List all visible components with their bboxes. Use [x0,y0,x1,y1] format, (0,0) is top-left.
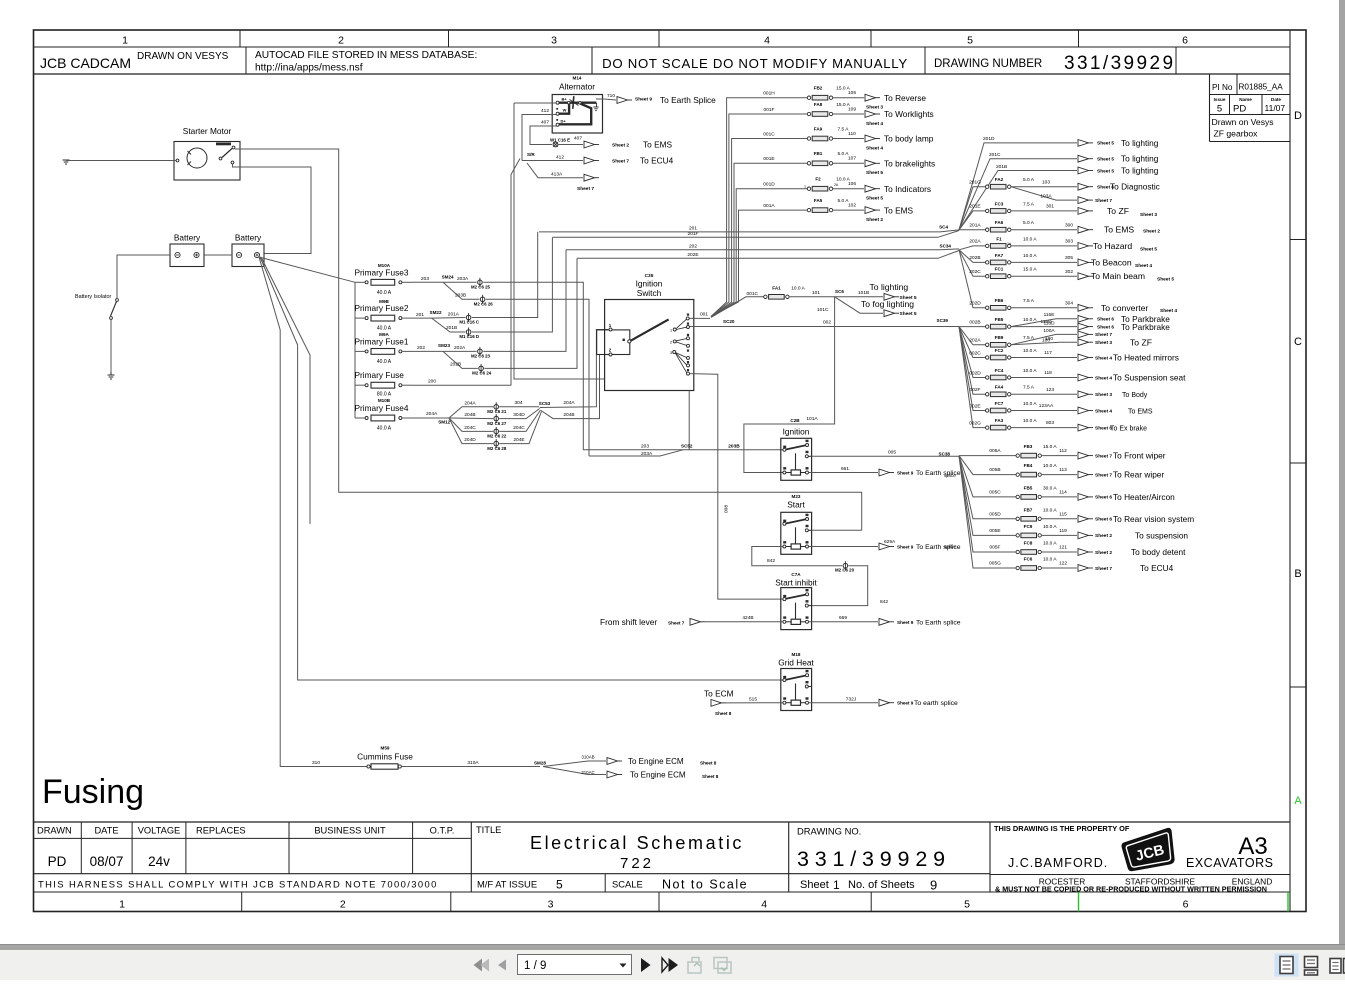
svg-text:M14: M14 [573,76,582,81]
wire 304 to arrow [1011,307,1077,309]
fuse FB3 15.0 A [1016,444,1067,458]
svg-text:FB4: FB4 [1024,463,1033,468]
svg-text:Switch: Switch [637,288,662,298]
svg-text:201: 201 [689,225,697,231]
svg-text:SC4: SC4 [939,225,948,230]
wire starter ground lead [66,160,176,162]
fuse F1 10.0 A [986,236,1074,248]
svg-text:Sheet 5: Sheet 5 [866,196,883,202]
wire 201A to bus 201 [472,232,538,318]
svg-text:101C: 101C [817,307,829,313]
svg-text:M2 C6 20: M2 C6 20 [835,568,855,573]
svg-text:A3: A3 [1238,833,1267,860]
svg-text:Sheet 5: Sheet 5 [1157,277,1174,283]
toolbar page number box [518,955,632,975]
svg-text:To Parkbrake: To Parkbrake [1121,322,1170,332]
svg-text:To ECM: To ECM [704,688,734,698]
fuse FA5 5.0 A [807,198,856,213]
svg-text:201E: 201E [969,204,980,210]
svg-text:R01885_AA: R01885_AA [1239,83,1284,92]
sheet arrow: To Hazard [1078,241,1157,252]
wire 204D branch [449,418,493,444]
svg-text:10.0 A: 10.0 A [1023,253,1037,259]
sheet arrow: 661 to earth splice [879,469,961,477]
wire 122 to arrow [1041,567,1077,569]
svg-text:001A: 001A [763,203,775,209]
svg-text:M/F AT ISSUE: M/F AT ISSUE [477,879,537,890]
wire 202B branch [443,351,478,368]
wire 002D row N [959,327,986,378]
wire 001C to FA1 [711,291,764,318]
svg-text:202C: 202C [969,269,981,275]
svg-text:669: 669 [839,615,847,621]
svg-text:Sheet 2: Sheet 2 [866,217,883,223]
wire 303 to arrow [1011,245,1077,247]
svg-text:SM12: SM12 [438,419,450,424]
toolbar previous page button [498,960,506,971]
svg-text:Primary Fuse1: Primary Fuse1 [355,336,409,346]
svg-text:Battery: Battery [235,233,262,243]
svg-text:Sheet 9: Sheet 9 [635,97,652,103]
title block values [48,854,171,869]
ground inside alternator [593,103,598,111]
svg-text:Sheet 7: Sheet 7 [1095,566,1112,572]
svg-text:To Heater/Aircon: To Heater/Aircon [1113,492,1175,502]
svg-text:M2 C6 22: M2 C6 22 [487,434,507,439]
svg-text:FC9: FC9 [1024,524,1033,529]
svg-text:100: 100 [1045,336,1053,342]
wire 201D to lighting arrow [959,136,1077,230]
svg-text:24v: 24v [148,854,170,869]
svg-text:203B: 203B [728,444,740,450]
sheet arrow: engine ECM 1 [607,757,717,766]
svg-text:301: 301 [1046,204,1054,210]
svg-text:008: 008 [724,505,730,513]
wire 201C to lighting arrow [959,152,1077,230]
wire primary fuse feed bus vertical [354,282,356,418]
svg-text:103A: 103A [1040,193,1052,199]
battery isolator switch [75,294,118,319]
svg-text:To body lamp: To body lamp [884,134,934,144]
svg-text:SM24: SM24 [442,274,454,279]
svg-text:302: 302 [1065,269,1073,275]
svg-text:5: 5 [1217,104,1222,115]
sheet arrow: To Rear vision system [1078,514,1194,524]
wire 412 to ECU4 arrow [522,155,583,161]
svg-text:304D: 304D [513,412,525,418]
svg-text:TITLE: TITLE [476,825,501,835]
wire 305 to arrow [1011,261,1077,263]
svg-text:Start: Start [787,500,805,510]
fuse FA1 10.0 A [764,285,806,299]
svg-text:Sheet 2: Sheet 2 [1095,533,1112,539]
sheet arrow: To Heated mirrors [1078,352,1179,362]
svg-text:3: 3 [670,351,672,355]
svg-text:To Heated mirrors: To Heated mirrors [1113,352,1179,362]
svg-text:407: 407 [574,136,582,142]
wire 301 to arrow [1011,210,1077,212]
fuse FB1 5.0 A [807,151,856,166]
toolbar first page button [474,959,490,972]
svg-text:From shift lever: From shift lever [600,617,657,627]
svg-text:407: 407 [541,120,549,126]
svg-text:To EMS: To EMS [643,140,673,150]
svg-text:005B: 005B [989,467,1000,473]
svg-text:002C: 002C [969,350,981,356]
svg-text:Sheet: Sheet [800,879,829,891]
svg-text:6: 6 [1182,35,1188,47]
wire 109 to arrow [833,113,864,115]
fuse FC3 7.5 A [986,201,1055,213]
svg-text:201: 201 [416,312,424,318]
sheet arrow: to lighting 201B [1078,166,1159,176]
svg-text:F1: F1 [996,236,1002,241]
wire 005E [959,456,1016,536]
svg-text:001: 001 [700,311,708,317]
svg-text:To lighting: To lighting [1121,166,1159,176]
toolbar last page button [662,958,678,972]
svg-text:117: 117 [1044,350,1052,356]
svg-text:B+: B+ [562,97,568,102]
fuse FC2 10.0 A [986,348,1053,360]
relay start M23 [781,494,812,554]
svg-text:105: 105 [848,90,856,96]
green revision tick 5|6 [1078,892,1080,912]
wire 669 to earth splice [809,615,879,622]
relay start inhibit C7A [775,572,817,630]
wire 201 from PrimaryFuse2 to splice SM22 [412,310,442,318]
wire 204A to ignition switch pin 1 [540,330,608,408]
sheet arrow: to ZF [1078,206,1157,218]
svg-text:7.5 A: 7.5 A [1023,298,1035,304]
sheet arrow: To Front wiper [1078,451,1166,461]
svg-text:M2 C6 23: M2 C6 23 [471,354,491,359]
wire 515 [726,696,783,703]
fuse FB7 10.0 A [1016,507,1067,521]
svg-text:Sheet 4: Sheet 4 [1095,408,1112,414]
svg-text:201B: 201B [996,164,1007,170]
wire 201A row F [959,223,986,230]
svg-text:SC53: SC53 [539,401,551,406]
svg-text:7.5 A: 7.5 A [1023,201,1035,207]
junction M2 C6 25 [471,278,491,290]
wire 203B down to 203A line [486,299,589,456]
svg-text:201F: 201F [688,231,699,237]
wire 661 to earth splice [809,466,879,473]
svg-text:10.0 A: 10.0 A [1043,463,1057,469]
svg-text:Sheet 4: Sheet 4 [1095,355,1112,361]
svg-text:30.0 A: 30.0 A [1043,486,1057,492]
svg-text:10.0 A: 10.0 A [1043,524,1057,530]
svg-text:Cummins Fuse: Cummins Fuse [357,752,413,762]
svg-text:113: 113 [1059,467,1067,473]
svg-text:Sheet 7: Sheet 7 [612,159,629,165]
svg-text:FB1: FB1 [814,151,823,156]
wire 114 to arrow [1041,496,1077,498]
svg-text:118: 118 [1044,370,1052,376]
sheet arrow: 103A sheet 7 [1078,197,1112,204]
wire 001C [711,131,807,316]
fuse FC7 10.0 A [986,401,1054,413]
svg-text:Sheet 8: Sheet 8 [715,711,732,716]
wire 304 crossover to SC53 [499,400,539,407]
wire 005D [959,456,1016,519]
svg-text:203: 203 [421,276,429,282]
wire 005C [959,456,1016,497]
sheet arrow: to ZF row L [1078,337,1152,347]
svg-text:FA6: FA6 [995,220,1004,225]
svg-text:Name: Name [1239,97,1252,102]
title text [530,833,744,872]
wire 413A branch [527,163,583,178]
sheet arrow: To brakelights [865,159,935,177]
fuse FB9 7.5 A [986,335,1051,347]
svg-text:Sheet 3: Sheet 3 [1095,392,1112,398]
wire battery1 to isolator [117,255,170,298]
svg-text:To lighting: To lighting [870,282,909,292]
svg-text:PD: PD [48,854,67,869]
sheet arrow: to earth splice (alternator) [617,95,716,105]
wire 103A branch [1011,187,1077,200]
header: DRAWING NUMBER [934,53,1175,74]
svg-text:1#: 1# [1007,242,1011,246]
svg-text:10.0 A: 10.0 A [1043,557,1057,563]
bus 201F [553,231,960,238]
svg-text:B: B [1294,568,1301,580]
relay grid heat M18 [778,652,814,711]
svg-text:C: C [1294,336,1302,348]
svg-text:Sheet 5: Sheet 5 [1097,141,1114,147]
svg-text:Grid Heat: Grid Heat [778,658,814,668]
wire 001E [711,156,807,316]
svg-text:005D: 005D [989,511,1001,517]
svg-text:To earth splice: To earth splice [914,700,958,707]
fuse FA8 15.0 A [807,102,856,116]
right border row letters D C B A [1290,110,1306,807]
wire 310AC branch [543,767,606,775]
svg-text:203B: 203B [455,293,466,299]
svg-text:110: 110 [848,131,856,137]
sheet arrow: To ECU4 [1078,563,1174,573]
svg-text:102: 102 [848,203,856,209]
junction W1 C16 E [550,138,570,147]
svg-text:002B: 002B [969,319,980,325]
svg-text:To brakelights: To brakelights [884,159,935,169]
svg-text:Sheet 9: Sheet 9 [897,471,914,476]
svg-text:Sheet 7: Sheet 7 [1095,453,1112,459]
svg-text:To ECU4: To ECU4 [1140,563,1174,573]
wire 204A branch [449,400,493,418]
svg-text:106: 106 [848,181,856,187]
wire 300 to arrow [1011,229,1077,231]
svg-text:10.0 A: 10.0 A [1023,236,1037,242]
svg-text:& MUST NOT BE COPIED OR RE-PRO: & MUST NOT BE COPIED OR RE-PRODUCED WITH… [995,885,1267,894]
wire 304D crossover [499,409,540,419]
wire alternator B+ to ignition switch [514,103,605,379]
svg-text:FB7: FB7 [1024,507,1033,512]
svg-text:002D: 002D [969,370,981,376]
wire starter motor aux to battery bus [233,164,312,254]
svg-text:1: 1 [122,35,128,47]
svg-text:100A: 100A [1043,328,1055,334]
wire battery feed to primary fuse bus [259,257,355,282]
svg-text:101A: 101A [806,416,818,422]
wire starter B+ to start relay feed [235,149,862,530]
battery 2 [232,233,264,267]
svg-text:PI No: PI No [1212,83,1233,92]
svg-text:101: 101 [812,290,820,296]
fuse FC9 10.0 A [1016,524,1067,538]
svg-text:DRAWING NO.: DRAWING NO. [797,826,861,837]
svg-text:Starter Motor: Starter Motor [183,126,232,136]
svg-text:204C: 204C [513,425,525,431]
sheet arrow: To Heater/Aircon [1078,492,1175,502]
svg-text:REPLACES: REPLACES [196,826,246,836]
svg-text:5.0 A: 5.0 A [1023,220,1035,226]
svg-text:To ZF: To ZF [1130,337,1152,347]
svg-text:204C: 204C [464,425,476,431]
svg-text:M2 C6 24: M2 C6 24 [472,371,492,376]
svg-text:Battery: Battery [174,233,201,243]
svg-text:To Engine ECM: To Engine ECM [630,771,686,780]
svg-text:FB5: FB5 [995,317,1004,322]
wire 203A merge [589,450,683,457]
svg-text:304: 304 [514,400,522,406]
wire 100 branch [1011,336,1077,345]
svg-text:FB9: FB9 [995,335,1004,340]
svg-text:Sheet 5: Sheet 5 [1097,168,1114,174]
svg-text:202A: 202A [969,338,981,344]
svg-text:109: 109 [848,106,856,112]
title block grid [34,822,1291,892]
svg-text:6: 6 [1183,899,1189,911]
svg-text:412: 412 [556,155,564,161]
wire 803 to arrow [1011,427,1077,429]
viewer scrollbar right [1339,0,1345,944]
wire 101A to ignition relay coil [744,297,835,473]
fuse FB5 30.0 A [1016,486,1067,500]
svg-text:J.C.BAMFORD.: J.C.BAMFORD. [1008,856,1108,870]
wire 001A [711,203,807,317]
wire 200 from PrimaryFuse [412,378,511,385]
svg-text:Ignition: Ignition [636,279,663,289]
svg-text:SCALE: SCALE [612,879,643,890]
svg-text:Sheet 6: Sheet 6 [1095,495,1112,501]
svg-text:Fusing: Fusing [42,773,144,811]
fuse FA3 10.0 A [986,418,1055,430]
svg-text:To lighting: To lighting [1121,154,1159,164]
svg-text:001C: 001C [747,291,759,297]
wire 105 to arrow [833,97,864,99]
svg-text:M2 C6 21: M2 C6 21 [487,409,507,414]
svg-text:107: 107 [848,156,856,162]
svg-text:005: 005 [888,449,896,455]
svg-text:ZF gearbox: ZF gearbox [1214,129,1259,139]
svg-text:304: 304 [1065,300,1073,306]
wire 102 to arrow [833,209,864,211]
svg-text:202: 202 [417,345,425,351]
svg-text:Sheet 6: Sheet 6 [1097,324,1114,330]
svg-text:DRAWING NUMBER: DRAWING NUMBER [934,58,1042,70]
svg-text:08/07: 08/07 [90,854,124,869]
svg-text:803: 803 [1046,420,1054,426]
wire 123 to arrow [1011,393,1077,395]
layout continuous button [1305,957,1318,976]
fuse FB2 15.0 A [807,86,856,101]
svg-text:202B: 202B [450,362,461,368]
svg-text:1: 1 [833,878,840,892]
fuse FC8 10.0 A [1016,541,1067,555]
wire 116D to arrow [1011,320,1077,326]
wire 002B row K [959,319,986,326]
wire 008 ignition switch to start inhibit [690,374,784,599]
wire battery feed to grid heat [260,257,783,680]
fuse FC1 15.0 A [986,267,1074,279]
svg-text:103: 103 [1042,179,1050,185]
alternator M14 [552,76,602,134]
svg-text:Drawn on Vesys: Drawn on Vesys [1212,117,1274,127]
wire 107 to arrow [833,162,864,164]
svg-text:To Main beam: To Main beam [1091,271,1145,281]
svg-text:Sheet 6: Sheet 6 [1097,317,1114,323]
svg-text:FA8: FA8 [814,102,823,107]
wire 201B to lighting arrow [959,164,1077,230]
wire 119 to arrow [1041,534,1077,536]
svg-text:424B: 424B [742,615,753,621]
svg-text:Primary Fuse4: Primary Fuse4 [355,403,409,413]
svg-text:202A: 202A [454,345,466,351]
wire 202B to bus 202E [484,258,577,368]
junction M2 C6 20 [835,561,855,572]
svg-text:To fog lighting: To fog lighting [861,299,914,309]
svg-text:201A: 201A [969,223,981,229]
wire 112 to arrow [1041,455,1077,457]
svg-text:310AB: 310AB [581,755,594,760]
svg-text:Sheet 6: Sheet 6 [1095,517,1112,523]
fuse FB6 7.5 A [986,298,1074,310]
svg-text:722: 722 [620,855,654,872]
svg-text:9: 9 [930,878,937,893]
junction M2 C6 26 [474,295,494,307]
svg-text:DATE: DATE [94,826,118,836]
svg-text:To body detent: To body detent [1131,547,1186,557]
sheet arrow: To Beacon [1078,257,1152,268]
wire 005 ignition relay to SC38 [812,449,959,456]
svg-text:To Indicators: To Indicators [884,184,931,194]
scale cell [612,878,748,892]
svg-text:FB3: FB3 [1024,444,1033,449]
svg-text:FA1: FA1 [772,285,781,290]
svg-text:2: 2 [340,899,346,911]
svg-text:SC34: SC34 [940,243,952,248]
svg-text:202D: 202D [969,301,981,307]
svg-text:310A: 310A [467,760,479,766]
sheet arrow: to EMS (alternator) [584,140,673,150]
wire 001 ignition switch output [689,311,710,318]
junction M1 C16 C [459,313,480,325]
svg-text:5: 5 [556,878,563,892]
svg-text:122: 122 [1059,561,1067,567]
svg-text:To Ex brake: To Ex brake [1110,425,1147,432]
toolbar next page button [641,958,651,972]
svg-text:732J: 732J [846,696,857,702]
wire 001F [711,107,807,317]
svg-text:W1 C16 E: W1 C16 E [550,138,570,143]
svg-text:Start inhibit: Start inhibit [775,578,817,588]
ground at starter motor [63,160,70,164]
sheet arrow: To body detent [1078,547,1186,557]
starter motor M1 [174,126,240,180]
